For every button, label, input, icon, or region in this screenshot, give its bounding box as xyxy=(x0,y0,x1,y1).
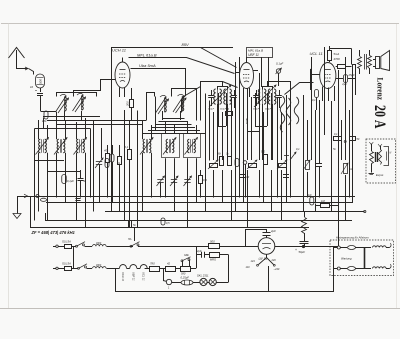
bus line 4 xyxy=(45,213,352,221)
trimmer C2 xyxy=(157,176,165,198)
oscillator coil L4 xyxy=(173,94,186,113)
capacitor bus2 xyxy=(161,218,170,225)
trimmer C4 xyxy=(184,176,192,212)
svg-text:0,5: 0,5 xyxy=(166,221,170,225)
wire verticals right xyxy=(304,47,353,220)
capacitor center2 xyxy=(283,175,289,178)
mains terminal upper xyxy=(53,245,58,247)
svg-text:0,1: 0,1 xyxy=(312,98,316,102)
wavy lead b xyxy=(286,98,291,125)
label 3mA xyxy=(245,118,249,124)
resistor MRG xyxy=(210,253,229,262)
resistor 50 horiz xyxy=(226,107,233,116)
oscillator coil L3 xyxy=(156,95,169,114)
resistor 0.3 vert xyxy=(199,170,208,198)
svg-text:85V: 85V xyxy=(182,42,189,47)
capacitor oval右 xyxy=(105,159,109,168)
svg-text:5mA: 5mA xyxy=(334,52,340,56)
switch mains lower xyxy=(78,264,116,270)
potentiometer right1 xyxy=(303,160,310,170)
label ZF xyxy=(31,230,76,235)
tube UBF11 pins xyxy=(235,57,258,97)
svg-text:0300: 0300 xyxy=(96,243,102,245)
antenna coil 500 xyxy=(30,74,45,89)
label box UBF11 xyxy=(247,48,273,58)
wire to rectifier xyxy=(240,246,258,248)
IF transformer T2 xyxy=(208,89,221,111)
wire avc horizontals xyxy=(34,121,146,172)
capacitor 2uF rectifier xyxy=(246,229,277,247)
heater supply row1 xyxy=(334,243,391,250)
svg-text:2µF: 2µF xyxy=(270,229,276,233)
svg-text:UBF 11: UBF 11 xyxy=(131,272,135,281)
resistor 1k anode xyxy=(336,65,352,69)
dashed box extern xyxy=(366,139,396,183)
bus line 3 xyxy=(105,210,366,212)
coil T4b xyxy=(162,134,180,158)
wire coil bank left xyxy=(39,112,86,228)
wire xyxy=(41,111,82,120)
svg-text:4700: 4700 xyxy=(334,57,341,61)
resistor 1M right xyxy=(315,199,338,208)
IF transformer T3b xyxy=(254,85,282,111)
tuning coil L1 xyxy=(56,94,69,113)
svg-text:0,25µF: 0,25µF xyxy=(181,276,190,280)
svg-text:220: 220 xyxy=(271,259,277,262)
tube UCL11 xyxy=(320,63,336,89)
heater supply row2 xyxy=(334,264,391,271)
wire UCL top xyxy=(330,49,352,65)
IF transformer T3 xyxy=(253,89,266,111)
bottom bus xyxy=(115,246,334,291)
resistor 500 xyxy=(209,239,241,248)
resistor 0.1 vert xyxy=(125,145,132,160)
capacitor right small xyxy=(316,160,322,198)
resistor cluster A xyxy=(104,149,110,163)
wire UCL right xyxy=(352,64,356,95)
heater supply link xyxy=(341,248,365,269)
svg-text:Heizspannung für Allstrom: Heizspannung für Allstrom xyxy=(336,236,369,240)
svg-text:GBL: GBL xyxy=(184,254,190,257)
wire jog a xyxy=(218,127,267,132)
rectifier tube UY11 xyxy=(258,238,275,261)
potentiometer right2 xyxy=(341,163,353,174)
text 20 A xyxy=(371,105,388,129)
wire Uba xyxy=(131,69,186,113)
antenna xyxy=(9,48,25,69)
pickup mark xyxy=(284,152,296,160)
coil T1a xyxy=(36,138,49,155)
svg-text:0,3: 0,3 xyxy=(203,178,207,182)
svg-text:580: 580 xyxy=(181,271,186,275)
fuse lower xyxy=(58,262,78,271)
svg-text:2µF: 2µF xyxy=(341,82,347,86)
svg-text:110pF: 110pF xyxy=(253,109,260,111)
capacitor 0.25uF xyxy=(172,276,200,285)
extern bracket xyxy=(384,147,392,166)
extern label xyxy=(369,173,385,177)
svg-text:2µF: 2µF xyxy=(196,249,202,253)
variable resistor row c xyxy=(277,160,287,169)
lamp SKL 2311 b xyxy=(207,255,228,286)
svg-text:0300: 0300 xyxy=(96,265,102,267)
output transformer xyxy=(365,50,372,74)
svg-text:40k: 40k xyxy=(104,149,109,153)
label UCL11 xyxy=(310,51,323,56)
svg-text:110pF: 110pF xyxy=(265,109,272,111)
voltage selector xyxy=(246,254,280,271)
capacitor 25uF cathode xyxy=(336,73,356,86)
svg-text:0,1µF: 0,1µF xyxy=(67,179,74,183)
svg-text:+: + xyxy=(295,248,297,252)
svg-text:HA: HA xyxy=(128,238,132,241)
trimmer C1 xyxy=(95,158,103,203)
wire riser left xyxy=(35,118,102,221)
svg-text:0,1: 0,1 xyxy=(296,147,300,151)
wire MFL xyxy=(129,58,235,74)
terminal circle center xyxy=(243,161,247,198)
capacitor cluster A xyxy=(110,154,114,162)
wire verticals center xyxy=(214,57,291,228)
svg-text:Expor.: Expor. xyxy=(376,173,384,177)
svg-text:MRG: MRG xyxy=(210,257,216,261)
text Lorenz xyxy=(376,78,386,101)
svg-text:UCH 11: UCH 11 xyxy=(121,272,125,282)
svg-text:200: 200 xyxy=(126,101,130,107)
junction circle xyxy=(163,268,172,289)
dashed box heater supply xyxy=(330,236,394,276)
wire UCL grid xyxy=(311,69,320,90)
resistor 50k vert xyxy=(217,153,224,166)
svg-text:∼240: ∼240 xyxy=(273,268,280,271)
coil T1b xyxy=(54,138,67,155)
wire IF tops xyxy=(201,82,291,121)
capacitor 104 xyxy=(42,111,48,123)
svg-text:Uba 5mA: Uba 5mA xyxy=(139,63,156,68)
switch mains upper xyxy=(74,242,134,269)
bus line 5 xyxy=(30,196,309,228)
wire osc jogs xyxy=(43,117,206,134)
extern transformer xyxy=(376,144,383,165)
label MFL 61a B xyxy=(137,52,157,57)
svg-text:UCL 11: UCL 11 xyxy=(310,51,323,56)
svg-text:25µF: 25µF xyxy=(348,73,356,77)
wire selector down xyxy=(268,266,270,292)
svg-text:50µF: 50µF xyxy=(299,250,306,254)
svg-text:20 A: 20 A xyxy=(371,105,388,129)
capacitor 0.1uF screen xyxy=(262,57,284,87)
capacitor 0.1uF bottom xyxy=(62,175,75,184)
svg-text:MFL 61a.B: MFL 61a.B xyxy=(137,52,157,57)
resistor 200 below UCH11 xyxy=(126,88,134,120)
wire diag osc xyxy=(184,82,238,97)
coil T4a xyxy=(140,138,153,155)
svg-text:Lorenz: Lorenz xyxy=(376,78,386,101)
wire right mid xyxy=(316,198,339,247)
resistor 780 xyxy=(145,262,165,272)
svg-text:2µF: 2µF xyxy=(306,193,312,197)
resistor 500 vert xyxy=(261,151,268,165)
variable resistor row b xyxy=(247,160,257,169)
capacitor 2uF right xyxy=(306,193,314,205)
svg-text:124: 124 xyxy=(251,260,256,263)
wire coil bank right xyxy=(143,120,197,228)
svg-text:ZF = 468| 473| 476 kHz: ZF = 468| 473| 476 kHz xyxy=(31,230,76,235)
IF transformer T2b xyxy=(209,85,237,111)
svg-text:100: 100 xyxy=(245,176,250,179)
resistor GBL xyxy=(181,246,197,275)
heater chain UCH11 UBF11 UCL11 xyxy=(115,265,149,282)
resistor C8 xyxy=(334,133,347,143)
wire rectifier right xyxy=(275,245,338,247)
wire top left loop xyxy=(57,80,116,97)
label 20 A small parts xyxy=(296,147,336,151)
mains terminal lower xyxy=(53,267,58,269)
svg-text:0,1: 0,1 xyxy=(334,133,338,136)
svg-text:UCH 11: UCH 11 xyxy=(112,48,126,53)
tube UCH11 pins xyxy=(120,58,125,98)
lamp SKL 2311 a xyxy=(197,274,209,286)
rail 85V xyxy=(111,42,233,212)
svg-text:0,1: 0,1 xyxy=(125,145,129,149)
coil T4c xyxy=(184,134,201,158)
switch heater tap xyxy=(128,228,209,248)
resistor C9 xyxy=(350,137,360,142)
svg-text:780: 780 xyxy=(150,262,155,266)
svg-text:500: 500 xyxy=(39,79,43,84)
wire riser mid xyxy=(138,94,210,228)
bus line 2 xyxy=(46,202,352,204)
wire cluster xyxy=(108,110,130,228)
variable resistor row a xyxy=(208,160,218,169)
capacitor grid UCL xyxy=(312,90,319,111)
svg-text:42: 42 xyxy=(167,262,171,266)
ground xyxy=(13,196,21,219)
wire antenna to coil xyxy=(16,67,34,75)
trimmer C3 xyxy=(170,176,178,203)
svg-text:500: 500 xyxy=(210,239,215,243)
capacitor 50uF xyxy=(295,242,309,255)
resistor above UCL11 xyxy=(328,46,341,62)
capacitor oval center xyxy=(235,159,239,167)
svg-text:G0,15A: G0,15A xyxy=(62,262,71,266)
field coil xyxy=(358,50,362,74)
svg-text:G0,15A: G0,15A xyxy=(62,240,71,244)
svg-text:110: 110 xyxy=(246,266,251,269)
resistor 42 xyxy=(166,262,181,272)
tube UBF11 xyxy=(240,63,254,89)
svg-text:10k: 10k xyxy=(42,119,47,123)
resistor field vert xyxy=(302,212,307,242)
capacitor center1 xyxy=(240,175,250,180)
resistor 30k vert xyxy=(226,153,232,166)
capacitor 2uF mains xyxy=(196,249,209,258)
bus line 1 xyxy=(17,194,355,201)
svg-text:0,1µF: 0,1µF xyxy=(276,62,283,66)
capacitor small bottom xyxy=(78,170,87,198)
svg-text:MFL 61a.B: MFL 61a.B xyxy=(248,49,263,53)
svg-text:UCL 11: UCL 11 xyxy=(142,272,146,281)
label Uba 5mA xyxy=(139,63,156,68)
wire IF bottoms xyxy=(218,104,273,160)
wire osc xyxy=(147,89,197,121)
wire rail diagonal xyxy=(201,48,237,68)
extern resistor xyxy=(369,142,373,173)
svg-text:10: 10 xyxy=(30,85,34,89)
switch GBL xyxy=(181,254,191,266)
svg-text:Wartung: Wartung xyxy=(341,257,352,261)
svg-text:500: 500 xyxy=(261,151,266,154)
wavy lead c xyxy=(285,83,314,125)
tube UCL11 pins xyxy=(323,86,335,101)
svg-text:UBF 11: UBF 11 xyxy=(248,53,259,57)
resistor cluster B xyxy=(117,157,122,166)
coil T1c xyxy=(74,138,87,155)
svg-text:SKL 2311: SKL 2311 xyxy=(197,274,209,278)
svg-text:N: N xyxy=(390,152,392,155)
wavy lead a xyxy=(280,96,285,132)
tuning coil L2 xyxy=(73,93,86,112)
tube UCH11 xyxy=(112,48,130,89)
fuse upper xyxy=(58,240,76,249)
speaker xyxy=(373,51,390,71)
capacitor antenna series xyxy=(35,88,43,111)
capacitor bus xyxy=(129,221,137,227)
